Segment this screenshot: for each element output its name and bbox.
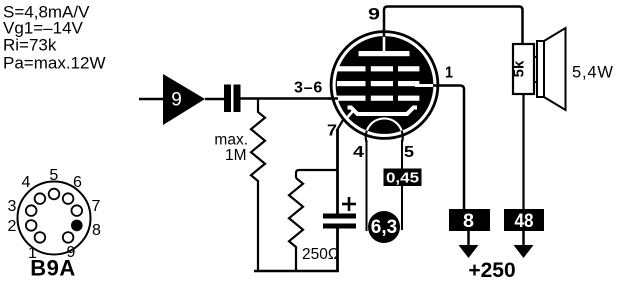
svg-text:9: 9 bbox=[368, 5, 380, 24]
cathode lead white diagonal bbox=[338, 111, 353, 128]
heater voltage circle 6,3 bbox=[368, 211, 400, 243]
grid g2 row bbox=[337, 81, 419, 86]
resistor max.1M bbox=[251, 99, 265, 272]
svg-text:1: 1 bbox=[445, 65, 453, 82]
svg-text:1M: 1M bbox=[225, 147, 247, 164]
svg-text:4: 4 bbox=[22, 174, 31, 191]
anode current box 48 bbox=[504, 209, 544, 231]
svg-text:3: 3 bbox=[8, 198, 17, 215]
pin 1 bbox=[35, 232, 46, 243]
heater wire pin 4 bbox=[366, 140, 368, 231]
cathode line from pin 7 bbox=[336, 129, 339, 214]
wire capacitor to tube grid bbox=[241, 97, 339, 100]
svg-text:8: 8 bbox=[463, 211, 474, 232]
anode bar bbox=[359, 51, 410, 56]
heater current box 0,45 bbox=[384, 169, 422, 187]
svg-text:max.: max. bbox=[214, 132, 248, 149]
screen pin 1 wire bbox=[433, 86, 464, 210]
svg-text:6,3: 6,3 bbox=[371, 217, 397, 238]
svg-text:+250: +250 bbox=[468, 259, 515, 282]
tube inner disk bbox=[336, 36, 434, 134]
grid g1 row bbox=[337, 96, 419, 101]
pin 7 bbox=[72, 205, 83, 216]
wire triangle to capacitor bbox=[205, 98, 224, 101]
B9A base outline bbox=[18, 182, 91, 255]
svg-text:9: 9 bbox=[171, 90, 182, 111]
coupling capacitor bbox=[224, 85, 231, 113]
screen current box 8 bbox=[449, 209, 490, 231]
svg-text:5k: 5k bbox=[511, 60, 528, 77]
spec text block bbox=[3, 3, 106, 73]
pin 8 (marked) bbox=[71, 220, 83, 232]
electrolytic capacitor plates bbox=[323, 214, 356, 219]
resistor 250 ohm bbox=[289, 178, 303, 271]
grid wire crossing envelope bbox=[328, 97, 338, 100]
cathode bent electrode bbox=[348, 108, 418, 115]
pin 9 bbox=[63, 232, 74, 243]
grid g3 row bbox=[337, 66, 419, 71]
svg-text:5,4W: 5,4W bbox=[572, 64, 614, 82]
speaker cone bbox=[544, 28, 566, 110]
speaker connector stubs bbox=[533, 56, 539, 58]
svg-text:0,45: 0,45 bbox=[386, 170, 419, 187]
svg-text:4: 4 bbox=[353, 144, 364, 161]
g2 lead white to pin1 bbox=[415, 84, 433, 87]
ground rail bbox=[254, 270, 339, 273]
svg-text:48: 48 bbox=[515, 211, 534, 232]
pin 6 bbox=[63, 193, 74, 204]
heater wire pin 5 bbox=[401, 140, 403, 230]
svg-text:7: 7 bbox=[92, 198, 101, 215]
heater loop white part inside disk bbox=[366, 118, 403, 142]
svg-text:7: 7 bbox=[327, 123, 337, 140]
arrow below box 48 bbox=[522, 231, 525, 247]
speaker driver rect bbox=[537, 41, 544, 97]
heater loop bbox=[366, 118, 403, 142]
cathode resistor 250ohm branch wire bbox=[296, 170, 338, 178]
svg-text:B9A: B9A bbox=[30, 256, 76, 281]
tube envelope bbox=[331, 32, 438, 139]
pin 4 bbox=[35, 193, 46, 204]
base pin labels bbox=[8, 167, 102, 262]
svg-text:Ri=73k: Ri=73k bbox=[3, 36, 57, 55]
svg-text:5: 5 bbox=[49, 167, 58, 184]
wire 5k to anode current box bbox=[522, 94, 524, 209]
output transformer primary 5k bbox=[513, 44, 534, 94]
svg-text:Pa=max.12W: Pa=max.12W bbox=[3, 54, 106, 73]
arrow below box 8 bbox=[467, 231, 470, 247]
svg-text:2: 2 bbox=[8, 218, 17, 235]
input triangle (pin 9 grid input) bbox=[163, 74, 205, 125]
svg-text:5: 5 bbox=[404, 144, 414, 161]
pin 7 lead outside tube bbox=[337, 120, 344, 131]
anode top wire to output transformer bbox=[384, 7, 523, 45]
plus sign of electrolytic bbox=[342, 197, 356, 211]
pin 2 bbox=[26, 220, 37, 231]
svg-text:3–6: 3–6 bbox=[294, 80, 323, 97]
svg-text:6: 6 bbox=[73, 174, 82, 191]
input wire bbox=[139, 98, 164, 101]
svg-text:250Ω: 250Ω bbox=[302, 246, 339, 263]
pin 5 bbox=[49, 189, 60, 200]
anode lead inside bbox=[383, 37, 386, 52]
svg-text:8: 8 bbox=[92, 222, 101, 239]
pin 3 bbox=[26, 205, 37, 216]
